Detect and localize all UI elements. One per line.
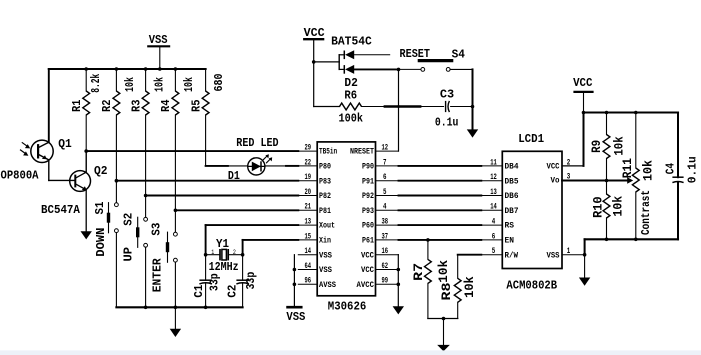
chip right pin 7 P90 (376, 165, 399, 167)
wire NRESET vertical to pin 12 (398, 69, 400, 151)
junction VSS at pin 96 (293, 283, 297, 287)
svg-text:13: 13 (305, 218, 312, 227)
svg-text:12: 12 (490, 173, 497, 182)
chip left pin 29 TB5in (298, 150, 317, 152)
junction rail at R11 (634, 111, 638, 115)
LCD left pin 5 R/W (481, 254, 502, 256)
junction on bus at R2 (115, 67, 119, 71)
wire P60-RS net (399, 224, 482, 226)
switch S2 (UP) (144, 217, 148, 221)
resistor R8 10k (454, 278, 461, 302)
svg-text:22: 22 (305, 158, 312, 167)
svg-text:Q1: Q1 (58, 137, 72, 151)
svg-text:12: 12 (382, 144, 389, 153)
svg-text:1: 1 (567, 247, 571, 256)
LED emission arrow 1 (263, 156, 267, 160)
wire Xout net (pin 13 to crystal) (206, 224, 299, 226)
svg-text:BC547A: BC547A (41, 203, 81, 217)
chip right pin 16 VCC (376, 254, 399, 256)
svg-text:BAT54C: BAT54C (331, 35, 372, 49)
chip left pin 20 P82 (298, 195, 317, 197)
wire R2 bottom down to S1 (115, 115, 117, 203)
svg-text:VSS: VSS (319, 267, 332, 275)
wire P82 net junction at R3/S2 (144, 194, 148, 198)
svg-text:10k: 10k (641, 160, 656, 181)
svg-text:10k: 10k (182, 77, 196, 92)
svg-text:R9: R9 (590, 140, 604, 153)
svg-text:38: 38 (382, 218, 389, 227)
junction bottom rail at R11 (634, 238, 638, 242)
junction Vo at R9/R10 (605, 179, 609, 183)
chip right pin 99 AVCC (376, 283, 399, 285)
svg-text:DB6: DB6 (505, 193, 519, 201)
resistor R2 value 10k (115, 69, 117, 91)
wire TB5in net (Q2 collector to pin 29) (86, 150, 298, 152)
svg-text:R10: R10 (590, 196, 605, 218)
junction NRESET at R6/C3 cross (397, 105, 400, 108)
svg-text:RED LED: RED LED (236, 136, 278, 150)
LED emission arrow 2 (266, 159, 270, 163)
chip left pin 13 Xout (298, 224, 317, 226)
capacitor C3 0.1u (445, 101, 447, 112)
capacitor C1 33p (205, 255, 207, 281)
svg-text:DB4: DB4 (505, 164, 519, 172)
wire LED cathode to chip P80 pin 22 (265, 165, 286, 167)
svg-text:Y1: Y1 (216, 237, 229, 251)
svg-text:C3: C3 (440, 88, 454, 102)
wire chip VSS pins to VSS symbol (293, 255, 295, 306)
svg-text:99: 99 (382, 277, 389, 286)
svg-text:64: 64 (305, 262, 312, 271)
svg-text:ENTER: ENTER (150, 258, 164, 293)
svg-text:C1: C1 (192, 285, 206, 298)
svg-text:P93: P93 (362, 208, 374, 216)
IC U1 M30626 body (317, 142, 375, 296)
svg-text:4: 4 (383, 203, 387, 212)
svg-text:37: 37 (382, 232, 389, 241)
svg-text:R7: R7 (411, 263, 426, 281)
junction EN net at R7 (426, 238, 430, 242)
svg-text:13: 13 (490, 188, 497, 197)
LCD module LCD1 body (502, 151, 562, 268)
svg-text:S4: S4 (452, 47, 465, 61)
ground arrow below S4 (467, 129, 478, 137)
wire down to ground below LCD (584, 255, 586, 278)
svg-text:VCC: VCC (361, 252, 374, 260)
wire P83 net junction at R2/S1 (115, 179, 119, 183)
resistor R3 value 10k (145, 69, 147, 91)
junction ground tap R7/R8 (442, 317, 446, 321)
junction rail at C1 (204, 306, 208, 310)
wire ground rail bottom left (116, 306, 242, 308)
junction bottom rail at R10 (605, 238, 609, 242)
svg-text:LCD1: LCD1 (518, 132, 544, 146)
LCD left pin 6 EN (481, 239, 502, 241)
wire bottom rail (right network) (585, 238, 678, 240)
transistor Q1 OP800A phototransistor (31, 140, 53, 162)
svg-text:VCC: VCC (547, 164, 560, 172)
resistor R7 10k (427, 240, 429, 260)
svg-text:C2: C2 (225, 285, 239, 298)
ground arrow below chip right (393, 306, 404, 314)
junction crystal right / C2 (241, 253, 245, 257)
svg-text:S3: S3 (150, 223, 164, 236)
wire chip VCC pins common (397, 255, 399, 307)
wire P82 net (S2 to pin 20) (146, 195, 299, 197)
svg-text:5: 5 (492, 247, 496, 256)
wire VCC vertical to LCD pin 2 (583, 113, 585, 166)
junction on bus at R3 (144, 67, 148, 71)
wire Q1 emitter down and right to Q2 base (48, 160, 50, 181)
wire Vo net (LCD pin 3 to wiper) (562, 180, 627, 182)
chip right pin 5 P92 (376, 195, 399, 197)
diode D2 BAT54C dual schottky (338, 55, 340, 70)
wire S3 bottom to ground rail (174, 262, 176, 307)
svg-text:33p: 33p (208, 273, 222, 291)
svg-text:Xin: Xin (319, 238, 331, 246)
svg-text:21: 21 (305, 203, 312, 212)
svg-text:R/W: R/W (505, 252, 519, 260)
LED D1 RED LED (248, 158, 265, 175)
junction TB5in tap at R1/Q2 (84, 149, 88, 153)
wire P93-DB7 net (399, 209, 482, 211)
svg-text:100k: 100k (339, 112, 364, 126)
junction VSS at pin 64 (293, 268, 297, 272)
wire VCC to D2 common cathode (314, 61, 340, 63)
wire P92-DB6 net (399, 195, 482, 197)
LCD right pin 2 VCC (562, 165, 584, 167)
svg-text:UP: UP (121, 247, 135, 262)
svg-text:R5: R5 (189, 100, 203, 113)
svg-text:10k: 10k (152, 77, 166, 92)
svg-text:10k: 10k (612, 136, 627, 155)
crystal Y1 12MHz (206, 254, 220, 256)
wire Q2 emitter down to ground (85, 190, 87, 231)
wire P81 net (S3 to pin 21) (175, 209, 298, 211)
resistor R10 10k (603, 194, 610, 218)
svg-text:6: 6 (492, 232, 496, 241)
svg-text:Q2: Q2 (94, 164, 108, 178)
svg-text:19: 19 (305, 173, 312, 182)
svg-text:Vo: Vo (551, 178, 560, 186)
wire R/W net (R8 corner to LCD pin 5) (458, 254, 482, 256)
wire R5/680 to LED anode (206, 165, 228, 167)
wire bottom rail corner to LCD pin1 node (584, 239, 586, 254)
chip left pin 96 AVSS (298, 283, 317, 285)
junction on bus at R4 (174, 67, 178, 71)
wire R5 bottom down to LED anode row (205, 115, 207, 166)
chip left pin 21 P81 (298, 209, 317, 211)
svg-text:4: 4 (492, 218, 496, 227)
LCD right pin 1 VSS (562, 254, 585, 256)
svg-text:DOWN: DOWN (94, 228, 108, 257)
resistor R1 value 8.2k (85, 69, 87, 91)
wire Q2 collector up to TB5in junction (85, 151, 87, 172)
switch S4 (RESET) (421, 68, 425, 72)
svg-text:2: 2 (567, 158, 571, 167)
junction C3 right / S4 ground column (471, 105, 475, 109)
junction on bus at R1 (84, 67, 88, 71)
ground arrow below Q2 (81, 231, 92, 239)
svg-text:R1: R1 (70, 100, 84, 113)
ground arrow below switch rail (170, 329, 181, 337)
wire top bus (pull-up rail to VSS) (49, 68, 206, 70)
svg-text:14: 14 (490, 203, 497, 212)
svg-text:S1: S1 (93, 202, 107, 215)
transistor Q2 BC547A (70, 171, 91, 192)
junction rail at S3 / ground tap (174, 306, 178, 310)
chip right pin 37 P61 (376, 239, 399, 241)
svg-text:96: 96 (305, 277, 312, 286)
svg-text:R8: R8 (439, 282, 454, 300)
wire P83 net (S1 to pin 19) (116, 180, 298, 182)
chip right pin 62 VCC (376, 269, 399, 271)
wire RESET net stub from D2 upper anode (354, 54, 390, 56)
svg-text:7: 7 (383, 158, 387, 167)
junction crystal left / C1 (204, 253, 208, 257)
wire C3 right to ground column (451, 106, 473, 108)
resistor R9 10k (606, 113, 608, 135)
LCD left pin 11 DB4 (481, 165, 502, 167)
svg-text:RESET: RESET (400, 47, 431, 61)
wire R3 bottom down to S2 (145, 115, 147, 217)
wire P81 net junction at R4/S3 (174, 209, 178, 213)
wire P61-EN net (399, 239, 482, 241)
junction VCC rail left (582, 111, 586, 115)
svg-text:R3: R3 (129, 100, 143, 113)
svg-text:S2: S2 (121, 213, 135, 226)
svg-text:NRESET: NRESET (350, 149, 374, 157)
svg-text:0.1u: 0.1u (435, 115, 459, 129)
capacitor C2 33p (242, 255, 244, 281)
junction VCC to D2 bracket (312, 60, 316, 64)
svg-text:R11: R11 (620, 158, 635, 178)
wire R7/R8 bottoms joined (428, 318, 458, 320)
potentiometer R11 10k Contrast (635, 113, 637, 169)
chip left pin 14 VSS (298, 254, 317, 256)
svg-text:8.2k: 8.2k (89, 74, 103, 93)
wire Xin net (pin 15 to crystal) (243, 239, 299, 241)
switch S3 (ENTER) (174, 232, 178, 236)
svg-text:20: 20 (305, 188, 312, 197)
wire R1 bottom to TB5in junction / Q2 collector column (85, 115, 87, 172)
svg-text:5: 5 (383, 188, 387, 197)
wire S1 bottom to ground rail (115, 233, 117, 308)
ground arrow below R7/R8 (437, 345, 450, 351)
wire NRESET row from D2 lower anode to S4 (354, 68, 398, 70)
chip left pin 22 P80 (298, 165, 317, 167)
svg-text:P92: P92 (362, 193, 374, 201)
chip right pin 6 P91 (376, 180, 399, 182)
svg-text:62: 62 (382, 262, 389, 271)
svg-text:1: 1 (211, 249, 214, 256)
svg-text:10k: 10k (123, 77, 137, 92)
svg-text:P91: P91 (362, 178, 374, 186)
svg-text:R4: R4 (159, 100, 173, 113)
svg-text:TB5in: TB5in (319, 149, 337, 157)
svg-text:VCC: VCC (361, 267, 374, 275)
wire S2 bottom to ground rail (145, 247, 147, 307)
capacitor C4 0.1u (677, 113, 679, 178)
svg-text:P83: P83 (319, 178, 331, 186)
wire ground stub below R7/R8 (443, 319, 445, 345)
svg-text:14: 14 (305, 247, 312, 256)
chip right pin 12 NRESET (376, 150, 399, 152)
svg-text:P61: P61 (362, 238, 374, 246)
resistor R5 value 680 (205, 69, 207, 91)
LCD left pin 14 DB7 (481, 209, 502, 211)
resistor R6 100k (314, 106, 340, 108)
wire bus corner down to Q1 collector (48, 69, 50, 142)
svg-text:2: 2 (233, 249, 236, 256)
svg-text:ACM0802B: ACM0802B (506, 278, 557, 292)
svg-text:VSS: VSS (149, 33, 168, 47)
svg-text:10k: 10k (436, 260, 451, 283)
wire P90-DB4 net (399, 165, 482, 167)
svg-text:33p: 33p (244, 272, 258, 290)
svg-text:VCC: VCC (573, 76, 592, 90)
ground arrow below LCD (579, 278, 590, 286)
resistor R4 value 10k (174, 69, 176, 91)
svg-text:6: 6 (383, 173, 387, 182)
chip right pin 38 P60 (376, 224, 399, 226)
wire R6 right to C3 (NRESET net) (362, 106, 444, 108)
LCD left pin 4 RS (481, 224, 502, 226)
wire S4 right to ground column (450, 68, 472, 70)
light arrow 1 into Q1 (22, 142, 27, 146)
svg-text:P82: P82 (319, 193, 331, 201)
svg-text:10k: 10k (462, 276, 477, 298)
LCD left pin 12 DB5 (481, 180, 502, 182)
wire VCC top rail (584, 111, 679, 113)
switch S1 (DOWN) (115, 203, 119, 207)
svg-text:AVSS: AVSS (319, 282, 336, 290)
chip left pin 64 VSS (298, 269, 317, 271)
LCD left pin 13 DB6 (481, 195, 502, 197)
svg-text:C4: C4 (664, 163, 678, 174)
junction rail at S2 (144, 306, 148, 310)
wire P91-DB5 net (399, 180, 482, 182)
svg-text:DB7: DB7 (505, 208, 519, 216)
chip left pin 19 P83 (298, 180, 317, 182)
svg-text:P90: P90 (362, 164, 374, 172)
svg-text:11: 11 (490, 158, 497, 167)
svg-text:AVCC: AVCC (357, 282, 375, 290)
svg-text:29: 29 (305, 144, 312, 153)
svg-text:R6: R6 (344, 89, 357, 103)
junction LCD VSS node (583, 253, 587, 257)
svg-text:Xout: Xout (319, 223, 335, 231)
status bar strip at bottom (0, 350, 701, 355)
svg-text:Contrast: Contrast (640, 190, 653, 235)
wire ground stub down from rail (174, 307, 176, 329)
junction rail at R9 (605, 111, 609, 115)
svg-text:0.1u: 0.1u (686, 156, 700, 183)
junction NRESET column top (397, 68, 401, 72)
svg-text:P60: P60 (362, 223, 374, 231)
svg-text:OP800A: OP800A (1, 169, 40, 183)
svg-text:P80: P80 (319, 164, 331, 172)
svg-text:VSS: VSS (547, 252, 560, 260)
svg-text:12MHz: 12MHz (209, 260, 239, 274)
svg-text:R2: R2 (100, 100, 114, 113)
svg-text:P81: P81 (319, 208, 331, 216)
svg-text:680: 680 (212, 74, 226, 92)
svg-text:16: 16 (382, 247, 389, 256)
power symbol VSS below chip (286, 306, 302, 309)
junction VCC at pin 99 (397, 283, 401, 287)
light arrow 2 into Q1 (20, 150, 25, 154)
svg-text:M30626: M30626 (328, 300, 367, 314)
junction on bus at VSS tap (158, 67, 162, 71)
svg-text:DB5: DB5 (505, 178, 519, 186)
chip left pin 15 Xin (298, 239, 317, 241)
svg-text:VSS: VSS (286, 310, 305, 324)
junction VCC at pin 62 (397, 268, 401, 272)
chip right pin 4 P93 (376, 209, 399, 211)
svg-text:VSS: VSS (319, 252, 332, 260)
svg-text:RS: RS (505, 223, 515, 231)
svg-text:15: 15 (305, 232, 312, 241)
svg-text:10k: 10k (611, 196, 626, 217)
svg-text:EN: EN (505, 238, 515, 246)
wire R4 bottom down to S3 (174, 115, 176, 232)
